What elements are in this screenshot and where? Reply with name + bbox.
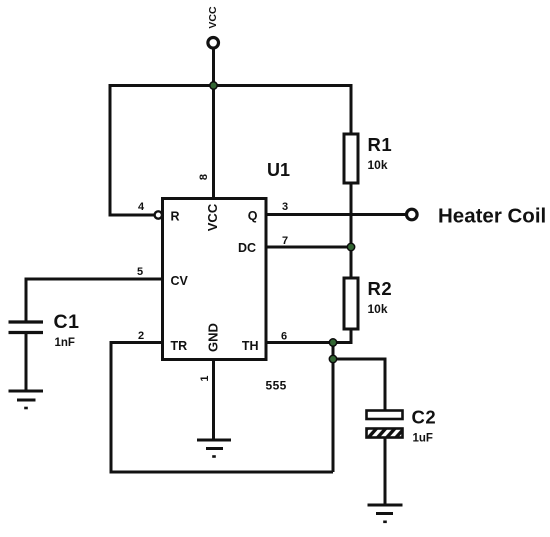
svg-text:5: 5 xyxy=(137,266,143,278)
heater coil terminal xyxy=(407,209,418,220)
wire Q output to heater terminal xyxy=(266,213,405,216)
wire branch to C2 xyxy=(333,359,385,411)
wire pin 8 xyxy=(212,86,215,199)
node TH junction xyxy=(329,339,336,346)
svg-text:R2: R2 xyxy=(368,278,393,299)
svg-text:Heater Coil: Heater Coil xyxy=(438,205,546,228)
wire bottom rail to TR xyxy=(111,343,333,473)
wire CV xyxy=(26,279,163,321)
svg-text:GND: GND xyxy=(205,323,220,352)
svg-text:VCC: VCC xyxy=(205,203,220,231)
pin 4 R bubble xyxy=(155,211,162,218)
wire TH to bottom rail xyxy=(332,343,335,473)
ground (C2) xyxy=(368,505,403,522)
svg-text:4: 4 xyxy=(138,201,145,213)
wire TH pin xyxy=(266,341,333,344)
wire R1 bottom to R2 top xyxy=(350,183,353,278)
wire C1 to ground xyxy=(25,334,28,391)
svg-text:1: 1 xyxy=(199,375,211,381)
wire right vertical to R1 xyxy=(350,84,353,134)
svg-text:8: 8 xyxy=(198,174,210,180)
wire VCC terminal to top rail xyxy=(212,48,215,85)
svg-text:U1: U1 xyxy=(267,160,290,180)
svg-text:1nF: 1nF xyxy=(55,337,75,349)
svg-text:CV: CV xyxy=(171,274,189,288)
svg-text:Q: Q xyxy=(248,209,258,223)
resistor R1 xyxy=(344,134,392,183)
resistor R2 xyxy=(344,278,392,329)
svg-text:555: 555 xyxy=(266,379,287,393)
ground (C1) xyxy=(9,391,44,408)
wire R2 bottom to TH xyxy=(333,329,351,343)
svg-text:DC: DC xyxy=(238,241,256,255)
svg-text:1uF: 1uF xyxy=(413,433,433,445)
svg-text:7: 7 xyxy=(282,235,288,247)
svg-text:10k: 10k xyxy=(368,158,388,172)
capacitor C2 xyxy=(367,407,437,445)
svg-text:TR: TR xyxy=(171,339,188,353)
IC U1 555 timer body xyxy=(163,160,291,393)
wire C2 to ground xyxy=(384,438,387,506)
ground (pin 1) xyxy=(197,440,231,457)
svg-text:R: R xyxy=(171,210,180,224)
wire DC to divider xyxy=(266,246,351,249)
node C2 branch junction xyxy=(329,355,336,362)
svg-text:VCC: VCC xyxy=(207,6,219,29)
svg-text:C2: C2 xyxy=(412,407,437,428)
svg-text:3: 3 xyxy=(282,201,288,213)
svg-text:10k: 10k xyxy=(368,302,388,316)
node DC junction xyxy=(347,243,354,250)
svg-text:C1: C1 xyxy=(54,311,80,333)
VCC terminal xyxy=(208,38,219,49)
svg-text:R1: R1 xyxy=(368,134,393,155)
wire top rail xyxy=(110,84,351,87)
svg-text:6: 6 xyxy=(281,331,287,343)
wire left vertical to reset xyxy=(110,84,155,215)
capacitor C1 xyxy=(9,311,80,349)
svg-text:TH: TH xyxy=(242,339,259,353)
node VCC rail junction xyxy=(210,82,217,89)
svg-text:2: 2 xyxy=(138,330,144,342)
wire pin 1 to ground xyxy=(212,360,215,441)
